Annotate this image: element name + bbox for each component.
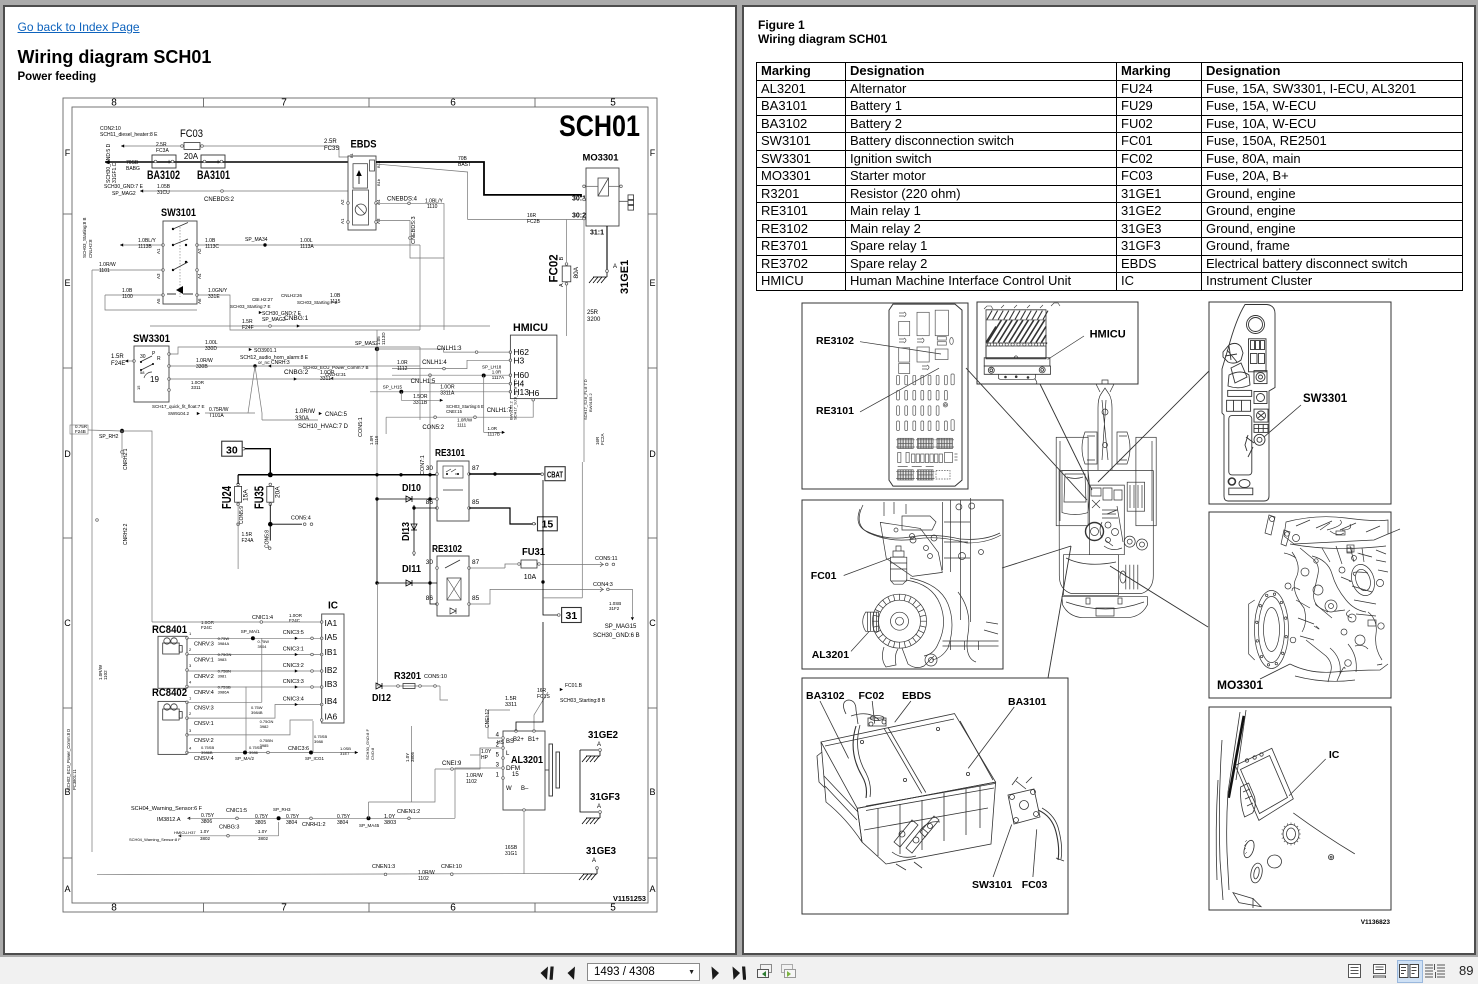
svg-text:31GF3: 31GF3 bbox=[590, 791, 620, 803]
svg-text:4: 4 bbox=[496, 733, 500, 739]
svg-text:3806: 3806 bbox=[201, 819, 212, 825]
svg-text:1101: 1101 bbox=[99, 268, 110, 274]
svg-text:CNEBDS:2: CNEBDS:2 bbox=[204, 197, 235, 203]
svg-text:CON5:8: CON5:8 bbox=[265, 530, 271, 548]
svg-text:A4: A4 bbox=[376, 199, 381, 205]
svg-text:CNIC3:4: CNIC3:4 bbox=[283, 697, 304, 703]
svg-text:CON5:11: CON5:11 bbox=[595, 556, 618, 562]
svg-text:2: 2 bbox=[189, 647, 192, 652]
svg-text:3802: 3802 bbox=[258, 836, 269, 841]
svg-text:DI11: DI11 bbox=[402, 563, 421, 575]
svg-text:3: 3 bbox=[496, 763, 500, 769]
svg-text:MO3301: MO3301 bbox=[583, 153, 620, 164]
svg-text:F24F: F24F bbox=[242, 325, 254, 331]
svg-text:31F2: 31F2 bbox=[609, 606, 620, 611]
svg-text:25R: 25R bbox=[587, 310, 599, 316]
svg-text:SCH04_Warning_Sensor:8 F: SCH04_Warning_Sensor:8 F bbox=[129, 837, 181, 842]
svg-text:IB1: IB1 bbox=[325, 647, 338, 657]
svg-text:SCH03_Starting:7 E: SCH03_Starting:7 E bbox=[230, 304, 271, 309]
svg-text:CBAT: CBAT bbox=[547, 471, 563, 480]
svg-text:CNRV:2: CNRV:2 bbox=[194, 674, 214, 680]
svg-text:1: 1 bbox=[189, 695, 192, 700]
svg-text:SCH02_ECU_Power_Comm:7 B: SCH02_ECU_Power_Comm:7 B bbox=[303, 365, 369, 370]
svg-text:A2: A2 bbox=[197, 248, 202, 254]
svg-text:+: + bbox=[167, 159, 171, 166]
svg-text:SP_RH3: SP_RH3 bbox=[273, 807, 291, 812]
svg-text:1115: 1115 bbox=[330, 299, 341, 305]
svg-text:CNSV:4: CNSV:4 bbox=[194, 756, 214, 762]
svg-text:F: F bbox=[65, 148, 71, 158]
svg-text:CNEN1:2: CNEN1:2 bbox=[397, 809, 420, 815]
svg-text:86: 86 bbox=[426, 595, 434, 602]
svg-text:6: 6 bbox=[450, 98, 456, 109]
svg-text:SW9104.2: SW9104.2 bbox=[168, 411, 190, 416]
svg-text:H3: H3 bbox=[513, 355, 524, 365]
svg-text:FC3A: FC3A bbox=[156, 148, 169, 154]
svg-text:3311: 3311 bbox=[320, 376, 331, 382]
svg-text:A1: A1 bbox=[340, 218, 345, 224]
svg-text:5: 5 bbox=[610, 903, 616, 914]
svg-text:–: – bbox=[209, 160, 213, 166]
svg-text:F: F bbox=[650, 148, 656, 158]
svg-text:BA3102: BA3102 bbox=[147, 168, 180, 182]
svg-text:3200: 3200 bbox=[587, 317, 601, 323]
svg-text:IA6: IA6 bbox=[325, 712, 338, 722]
svg-text:3803: 3803 bbox=[384, 820, 396, 826]
svg-text:CNRH:3: CNRH:3 bbox=[271, 360, 290, 366]
svg-text:4: 4 bbox=[189, 680, 192, 685]
svg-text:6: 6 bbox=[450, 903, 456, 914]
svg-text:BABG: BABG bbox=[126, 166, 140, 172]
svg-text:B1b: B1b bbox=[376, 178, 381, 186]
svg-text:SP_MAS2: SP_MAS2 bbox=[355, 341, 378, 347]
svg-text:CNSV:1: CNSV:1 bbox=[194, 721, 214, 727]
svg-text:V1136823: V1136823 bbox=[1361, 919, 1391, 926]
svg-text:3311A: 3311A bbox=[440, 391, 455, 397]
svg-text:SP_LH15: SP_LH15 bbox=[383, 385, 403, 390]
svg-text:A: A bbox=[613, 264, 617, 270]
svg-text:CNLH2:8: CNLH2:8 bbox=[88, 239, 93, 258]
svg-text:7: 7 bbox=[281, 98, 287, 109]
svg-text:FC01: FC01 bbox=[811, 570, 837, 582]
svg-text:87: 87 bbox=[472, 465, 480, 472]
svg-text:IB3: IB3 bbox=[325, 679, 338, 689]
svg-text:1102: 1102 bbox=[103, 670, 108, 680]
svg-text:CNLH1:5: CNLH1:5 bbox=[411, 379, 436, 385]
svg-text:15A: 15A bbox=[243, 489, 250, 501]
svg-text:SP_MAG2: SP_MAG2 bbox=[262, 317, 286, 323]
svg-text:CNEBDS:3: CNEBDS:3 bbox=[411, 216, 417, 244]
svg-text:FC2A: FC2A bbox=[600, 433, 605, 445]
svg-text:EBDS: EBDS bbox=[902, 690, 931, 702]
svg-text:A6: A6 bbox=[197, 298, 202, 304]
svg-text:RE3102: RE3102 bbox=[816, 335, 854, 347]
svg-text:B: B bbox=[649, 787, 655, 797]
svg-text:1.0Y: 1.0Y bbox=[258, 829, 267, 834]
svg-text:A1: A1 bbox=[156, 248, 161, 254]
svg-text:CON4:3: CON4:3 bbox=[593, 582, 613, 588]
svg-text:CNIC1:4: CNIC1:4 bbox=[252, 615, 273, 621]
svg-text:20A: 20A bbox=[184, 152, 199, 161]
svg-text:+: + bbox=[216, 159, 220, 166]
svg-text:PC3801:11: PC3801:11 bbox=[72, 769, 77, 790]
svg-text:CNEBDS:4: CNEBDS:4 bbox=[387, 197, 418, 203]
svg-text:85: 85 bbox=[472, 595, 480, 602]
svg-text:BA3102: BA3102 bbox=[806, 690, 845, 702]
svg-text:CON5:10: CON5:10 bbox=[424, 674, 447, 680]
svg-text:331E: 331E bbox=[208, 294, 220, 300]
svg-text:R3201: R3201 bbox=[394, 670, 421, 682]
svg-text:A3: A3 bbox=[376, 218, 381, 224]
svg-text:1100: 1100 bbox=[122, 294, 133, 300]
svg-text:1.0R: 1.0R bbox=[492, 370, 502, 375]
svg-text:AL3201: AL3201 bbox=[812, 649, 850, 661]
svg-text:330A: 330A bbox=[295, 416, 309, 422]
svg-text:FC3S: FC3S bbox=[324, 146, 339, 152]
svg-text:3986B: 3986B bbox=[201, 750, 213, 755]
svg-text:2.5R: 2.5R bbox=[324, 139, 337, 145]
svg-text:CNLH1:3: CNLH1:3 bbox=[437, 346, 462, 352]
svg-text:DI13: DI13 bbox=[400, 522, 412, 541]
svg-text:CNAC:5: CNAC:5 bbox=[325, 412, 348, 418]
svg-text:RE3101: RE3101 bbox=[435, 447, 465, 459]
svg-text:CBI.H2:27: CBI.H2:27 bbox=[252, 297, 273, 302]
svg-text:31: 31 bbox=[566, 610, 578, 622]
svg-text:HMICU.H37: HMICU.H37 bbox=[174, 830, 196, 835]
svg-text:19: 19 bbox=[150, 375, 159, 384]
svg-text:FC01.B: FC01.B bbox=[565, 683, 583, 689]
svg-text:1111: 1111 bbox=[457, 423, 467, 428]
svg-text:HMICU: HMICU bbox=[1090, 329, 1126, 341]
svg-text:1.0Y: 1.0Y bbox=[200, 829, 209, 834]
svg-text:–: – bbox=[160, 160, 164, 166]
svg-text:3805: 3805 bbox=[410, 751, 415, 762]
svg-text:330D: 330D bbox=[205, 346, 217, 352]
svg-text:SCH10_HVAC:7 D: SCH10_HVAC:7 D bbox=[298, 424, 349, 430]
svg-text:SO3901.1: SO3901.1 bbox=[254, 348, 277, 354]
svg-text:FU31: FU31 bbox=[522, 546, 545, 558]
svg-text:B–: B– bbox=[521, 786, 529, 792]
svg-text:SCH02_ECU_Power_Comm:8 D: SCH02_ECU_Power_Comm:8 D bbox=[66, 729, 71, 790]
svg-text:10A: 10A bbox=[524, 574, 537, 581]
svg-text:BA3101: BA3101 bbox=[1008, 696, 1047, 708]
svg-text:L: L bbox=[506, 751, 510, 757]
svg-text:15: 15 bbox=[512, 772, 519, 778]
svg-text:CNRV:1: CNRV:1 bbox=[194, 658, 214, 664]
svg-text:SP_ICG1: SP_ICG1 bbox=[305, 756, 325, 761]
svg-text:CNBG:3: CNBG:3 bbox=[219, 825, 239, 831]
svg-text:1112: 1112 bbox=[397, 366, 408, 372]
svg-text:1102: 1102 bbox=[418, 876, 429, 882]
svg-text:CNIC3:3: CNIC3:3 bbox=[283, 679, 304, 685]
svg-text:W: W bbox=[506, 786, 512, 792]
svg-text:SCH03_Starting:8 B: SCH03_Starting:8 B bbox=[82, 217, 87, 258]
svg-text:1116: 1116 bbox=[374, 435, 379, 445]
svg-text:3981: 3981 bbox=[218, 674, 228, 679]
svg-text:SCH11_diesel_heater:8 E: SCH11_diesel_heater:8 E bbox=[100, 132, 158, 138]
svg-text:1: 1 bbox=[189, 631, 192, 636]
svg-text:IB2: IB2 bbox=[325, 665, 338, 675]
svg-text:A: A bbox=[592, 858, 596, 864]
svg-text:SP_MA/1: SP_MA/1 bbox=[241, 629, 261, 634]
svg-text:CNRV:3: CNRV:3 bbox=[194, 641, 214, 647]
svg-text:RE3101: RE3101 bbox=[816, 405, 854, 417]
svg-text:CNIC3:1: CNIC3:1 bbox=[283, 647, 304, 653]
svg-text:FC2B: FC2B bbox=[527, 219, 540, 225]
svg-text:C: C bbox=[64, 618, 71, 628]
svg-text:EBDS: EBDS bbox=[351, 139, 377, 151]
svg-text:1113A: 1113A bbox=[300, 244, 314, 250]
svg-text:330B: 330B bbox=[196, 364, 208, 370]
svg-text:A: A bbox=[649, 884, 655, 894]
svg-text:DI10: DI10 bbox=[402, 482, 421, 494]
svg-text:31GE1: 31GE1 bbox=[619, 260, 631, 294]
svg-text:B1+: B1+ bbox=[528, 737, 539, 743]
svg-text:3984A: 3984A bbox=[218, 641, 230, 646]
svg-text:1.0R/W: 1.0R/W bbox=[295, 409, 315, 415]
svg-text:CNRH2:2: CNRH2:2 bbox=[123, 523, 129, 545]
svg-text:IA1: IA1 bbox=[325, 618, 338, 628]
svg-text:IM3812.A: IM3812.A bbox=[157, 817, 181, 823]
svg-text:SW3101: SW3101 bbox=[161, 207, 196, 219]
svg-text:CNEN1:3: CNEN1:3 bbox=[372, 864, 395, 870]
svg-text:HS: HS bbox=[497, 740, 505, 746]
svg-text:7: 7 bbox=[281, 903, 287, 914]
svg-text:SP_MA/2: SP_MA/2 bbox=[235, 756, 255, 761]
svg-text:F24E: F24E bbox=[111, 361, 125, 367]
svg-text:H6: H6 bbox=[529, 388, 540, 398]
svg-text:CNLH2:26: CNLH2:26 bbox=[281, 293, 303, 298]
svg-text:A: A bbox=[597, 804, 601, 810]
svg-text:C: C bbox=[649, 618, 656, 628]
svg-text:CNRV:4: CNRV:4 bbox=[194, 690, 214, 696]
svg-text:31GE3: 31GE3 bbox=[586, 845, 616, 857]
svg-text:SCH03_Starting:8 B: SCH03_Starting:8 B bbox=[560, 698, 606, 704]
svg-text:SCH17_quick_fit_float:7 E: SCH17_quick_fit_float:7 E bbox=[152, 404, 205, 409]
svg-text:RE3102: RE3102 bbox=[432, 543, 462, 555]
svg-text:1117B: 1117B bbox=[488, 432, 500, 437]
svg-text:B2+: B2+ bbox=[513, 737, 524, 743]
svg-text:BA3101: BA3101 bbox=[197, 168, 230, 182]
svg-text:3804: 3804 bbox=[337, 820, 348, 826]
svg-text:CNEI:9: CNEI:9 bbox=[442, 761, 462, 767]
svg-text:1: 1 bbox=[496, 773, 500, 779]
svg-text:4: 4 bbox=[189, 746, 192, 751]
svg-text:CNEI:10: CNEI:10 bbox=[441, 864, 462, 870]
svg-text:3904: 3904 bbox=[258, 644, 268, 649]
svg-text:B1: B1 bbox=[349, 152, 354, 158]
svg-text:CNLH1:4: CNLH1:4 bbox=[422, 360, 447, 366]
svg-text:1.0R: 1.0R bbox=[488, 426, 498, 431]
svg-text:CON5:1: CON5:1 bbox=[358, 417, 364, 437]
svg-text:SCH17_SJ:8_FL:8 7 D: SCH17_SJ:8_FL:8 7 D bbox=[513, 379, 518, 420]
svg-text:B: B bbox=[559, 257, 565, 261]
svg-text:3804: 3804 bbox=[286, 820, 297, 826]
svg-text:SCH04_Warning_Sensor:6 F: SCH04_Warning_Sensor:6 F bbox=[131, 806, 203, 812]
svg-text:3802: 3802 bbox=[200, 836, 211, 841]
svg-text:FU35: FU35 bbox=[252, 486, 267, 509]
svg-text:R: R bbox=[157, 356, 161, 362]
svg-text:FC02: FC02 bbox=[859, 690, 885, 702]
svg-text:SP_MAG2: SP_MAG2 bbox=[112, 191, 136, 197]
svg-text:A2: A2 bbox=[340, 199, 345, 205]
svg-text:31GF1.C: 31GF1.C bbox=[112, 162, 118, 183]
svg-text:30: 30 bbox=[226, 445, 238, 457]
svg-text:1.5R: 1.5R bbox=[111, 354, 124, 360]
svg-text:31GE2: 31GE2 bbox=[588, 729, 618, 741]
svg-text:D: D bbox=[64, 449, 71, 459]
svg-text:3988: 3988 bbox=[314, 739, 324, 744]
svg-text:3311: 3311 bbox=[191, 385, 201, 390]
svg-text:F24A: F24A bbox=[242, 538, 255, 544]
svg-text:1110: 1110 bbox=[427, 204, 438, 210]
svg-text:SW3301: SW3301 bbox=[1303, 393, 1348, 405]
svg-text:FU24: FU24 bbox=[219, 485, 234, 509]
svg-text:5: 5 bbox=[610, 98, 616, 109]
svg-text:CNIC3:2: CNIC3:2 bbox=[283, 663, 304, 669]
svg-text:3311B: 3311B bbox=[413, 400, 428, 406]
svg-text:3984B: 3984B bbox=[251, 710, 263, 715]
svg-text:SP_RH2: SP_RH2 bbox=[99, 434, 119, 440]
svg-text:31G1: 31G1 bbox=[505, 851, 517, 857]
svg-text:3986A: 3986A bbox=[218, 690, 230, 695]
svg-text:CNSV:2: CNSV:2 bbox=[194, 738, 214, 744]
svg-text:A: A bbox=[64, 884, 70, 894]
svg-text:F24C: F24C bbox=[201, 625, 213, 630]
svg-text:E: E bbox=[64, 278, 70, 288]
svg-text:1102: 1102 bbox=[466, 779, 477, 785]
svg-text:FC03: FC03 bbox=[180, 128, 203, 140]
svg-text:A: A bbox=[597, 742, 601, 748]
svg-text:30: 30 bbox=[426, 465, 434, 472]
svg-text:BAST: BAST bbox=[458, 162, 471, 168]
svg-text:HP: HP bbox=[481, 755, 489, 761]
svg-text:2: 2 bbox=[189, 711, 192, 716]
svg-text:15: 15 bbox=[136, 385, 141, 390]
svg-text:SW3301: SW3301 bbox=[133, 333, 170, 345]
svg-text:3: 3 bbox=[189, 663, 192, 668]
svg-text:3982: 3982 bbox=[260, 724, 270, 729]
svg-text:HMICU: HMICU bbox=[513, 322, 548, 334]
svg-text:1113B: 1113B bbox=[138, 244, 152, 250]
svg-text:SP_MAG15: SP_MAG15 bbox=[605, 624, 637, 630]
svg-text:31E7: 31E7 bbox=[340, 751, 350, 756]
svg-text:SP_MA45: SP_MA45 bbox=[359, 823, 380, 828]
svg-text:A4: A4 bbox=[197, 273, 202, 279]
svg-text:DFM: DFM bbox=[506, 765, 520, 772]
svg-text:MO3301: MO3301 bbox=[1217, 678, 1263, 692]
svg-text:CNSV:3: CNSV:3 bbox=[194, 705, 214, 711]
svg-text:IB4: IB4 bbox=[325, 696, 338, 706]
svg-text:3805: 3805 bbox=[255, 820, 266, 826]
svg-text:F24B: F24B bbox=[75, 429, 86, 434]
svg-text:20A: 20A bbox=[275, 486, 282, 498]
svg-text:RC8402: RC8402 bbox=[152, 687, 187, 699]
svg-text:V1151253: V1151253 bbox=[613, 896, 646, 903]
svg-text:SCH30_GND:7 E: SCH30_GND:7 E bbox=[104, 184, 144, 190]
svg-text:A5: A5 bbox=[156, 298, 161, 304]
svg-text:or_nc:: or_nc: bbox=[258, 360, 271, 365]
svg-text:CON5:4: CON5:4 bbox=[291, 516, 311, 522]
svg-text:CON5:9: CON5:9 bbox=[239, 506, 245, 524]
svg-text:IC: IC bbox=[1329, 749, 1340, 761]
svg-text:IC: IC bbox=[328, 601, 338, 612]
svg-text:CNIC3:6: CNIC3:6 bbox=[288, 746, 309, 752]
svg-text:FC1S: FC1S bbox=[537, 694, 550, 700]
svg-text:CNBG:2: CNBG:2 bbox=[284, 369, 309, 376]
svg-text:SCH01: SCH01 bbox=[559, 110, 640, 143]
svg-text:SP_MA34: SP_MA34 bbox=[245, 237, 268, 243]
svg-text:P: P bbox=[152, 351, 156, 357]
svg-text:80A: 80A bbox=[573, 266, 580, 278]
svg-text:CNIC1:5: CNIC1:5 bbox=[226, 808, 247, 814]
svg-text:87: 87 bbox=[472, 559, 480, 566]
svg-text:3983: 3983 bbox=[218, 657, 228, 662]
svg-text:3: 3 bbox=[189, 728, 192, 733]
svg-text:BW9105.2: BW9105.2 bbox=[588, 393, 593, 412]
svg-text:CNRH1:2: CNRH1:2 bbox=[302, 822, 326, 828]
svg-text:31:1: 31:1 bbox=[590, 230, 604, 237]
svg-text:1113C: 1113C bbox=[205, 244, 219, 250]
svg-text:A3: A3 bbox=[156, 273, 161, 279]
svg-text:CNBG:1: CNBG:1 bbox=[284, 315, 309, 322]
svg-text:3311: 3311 bbox=[505, 702, 517, 708]
svg-text:T101A: T101A bbox=[209, 413, 224, 419]
svg-text:CNRH2:1: CNRH2:1 bbox=[123, 448, 129, 470]
svg-text:E: E bbox=[649, 278, 655, 288]
svg-text:5: 5 bbox=[496, 753, 500, 759]
svg-text:FC03: FC03 bbox=[1022, 879, 1048, 891]
svg-text:RC8401: RC8401 bbox=[152, 624, 187, 636]
svg-text:IA5: IA5 bbox=[325, 632, 338, 642]
svg-text:A: A bbox=[559, 283, 565, 287]
svg-text:1117A: 1117A bbox=[492, 375, 504, 380]
svg-text:85: 85 bbox=[472, 499, 480, 506]
svg-text:CNEI:15: CNEI:15 bbox=[446, 409, 462, 414]
svg-text:CNIC3:5: CNIC3:5 bbox=[283, 630, 304, 636]
svg-text:CNO:8: CNO:8 bbox=[370, 747, 375, 760]
svg-text:30: 30 bbox=[426, 559, 434, 566]
svg-text:SW3101: SW3101 bbox=[972, 879, 1012, 891]
svg-text:8: 8 bbox=[111, 903, 117, 914]
svg-text:D: D bbox=[649, 449, 656, 459]
svg-text:31CU: 31CU bbox=[157, 190, 170, 196]
svg-text:DI12: DI12 bbox=[372, 692, 391, 704]
svg-text:SCH30_GND:6 B: SCH30_GND:6 B bbox=[593, 633, 640, 639]
svg-text:1113D: 1113D bbox=[381, 332, 386, 345]
svg-text:3986: 3986 bbox=[249, 750, 259, 755]
svg-text:8: 8 bbox=[111, 98, 117, 109]
svg-text:CON5:2: CON5:2 bbox=[422, 425, 444, 431]
